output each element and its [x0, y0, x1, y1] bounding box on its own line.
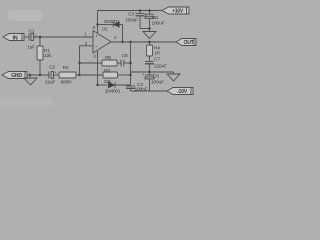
svg-text:100nF: 100nF	[135, 87, 148, 93]
svg-text:220nF: 220nF	[154, 64, 167, 70]
svg-text:IN: IN	[13, 35, 18, 41]
ground symbol right	[167, 72, 180, 81]
node C6 top	[148, 71, 150, 73]
node top rail C3	[139, 9, 141, 11]
wire pin5 to V+ node	[97, 11, 99, 34]
wire pin3 to negative rail	[97, 50, 99, 85]
svg-text:C7: C7	[154, 57, 160, 63]
svg-text:680R: 680R	[61, 79, 73, 85]
svg-text:1N4001: 1N4001	[105, 88, 121, 94]
svg-text:R3: R3	[104, 68, 110, 74]
wire C1 to opamp pin1	[34, 36, 94, 38]
wire D2 row	[98, 84, 108, 86]
svg-text:-10V: -10V	[177, 89, 188, 95]
connector IN	[3, 34, 24, 42]
svg-text:C5: C5	[152, 15, 158, 21]
svg-text:GND: GND	[11, 73, 22, 79]
ground symbol left	[24, 75, 37, 85]
capacitor C2 22uF	[45, 65, 57, 86]
node bus R3 row	[129, 74, 131, 76]
node gnd junction	[29, 74, 31, 76]
capacitor C3 100nF	[125, 11, 149, 29]
wire top rail	[98, 10, 163, 12]
svg-text:R2: R2	[63, 65, 69, 71]
wire negative rail	[131, 90, 168, 92]
diode D2 1N4001	[105, 82, 131, 94]
svg-text:+: +	[95, 35, 98, 40]
wire R5 row	[80, 62, 103, 64]
wire ground row right	[131, 71, 174, 73]
wire opamp pin2	[80, 45, 94, 47]
node C3 C5 ground junction	[148, 27, 150, 29]
capacitor C4 100nF	[126, 82, 148, 92]
resistor R4 1R	[147, 42, 161, 61]
connector -10V	[167, 88, 193, 96]
node output feedback bus	[129, 41, 131, 43]
svg-text:22uF: 22uF	[45, 80, 56, 86]
svg-text:C8: C8	[122, 53, 128, 59]
svg-text:100uF: 100uF	[151, 80, 164, 86]
op-amp U1	[93, 27, 111, 53]
node D1 output junction	[121, 41, 123, 43]
diode D1 1N4001	[104, 19, 123, 27]
svg-text:C6: C6	[153, 74, 159, 80]
wire pin2 vertical bus	[79, 46, 81, 75]
node top rail C5	[148, 9, 150, 11]
svg-text:C3: C3	[128, 12, 134, 18]
connector OUT	[176, 39, 196, 47]
wire D1 to output	[122, 25, 124, 43]
wire feedback bus vertical	[130, 42, 132, 86]
svg-text:1N4001: 1N4001	[104, 19, 120, 25]
node pin2 bus R5 row	[78, 62, 80, 64]
svg-text:U1: U1	[102, 27, 108, 33]
resistor R1 22k	[37, 37, 52, 75]
capacitor C1 1uF	[27, 29, 37, 51]
wire R3 row	[80, 74, 104, 76]
svg-text:R5: R5	[105, 55, 111, 61]
wire GND rail	[27, 74, 49, 76]
node pin5 diode junction	[96, 23, 98, 25]
node pin2 bus lower	[78, 74, 80, 76]
svg-text:–: –	[95, 45, 98, 50]
wire D1 anode row	[98, 24, 114, 26]
capacitor C7 220nF	[145, 57, 167, 73]
svg-text:1R: 1R	[154, 51, 161, 57]
connector GND	[2, 72, 27, 80]
ground symbol top	[143, 29, 156, 39]
capacitor C8	[121, 53, 131, 67]
connector +10V	[162, 7, 189, 15]
wire C2 to R2	[54, 74, 60, 76]
svg-text:+10V: +10V	[172, 9, 184, 15]
resistor R2 680R	[59, 65, 80, 85]
node R1 ground junction	[39, 74, 41, 76]
svg-text:100nF: 100nF	[125, 18, 138, 24]
node input junction	[39, 36, 41, 38]
resistor R5	[102, 55, 121, 66]
node output R4	[148, 41, 150, 43]
resistor R3 22k	[103, 68, 131, 85]
wire output	[111, 41, 176, 43]
svg-text:1uF: 1uF	[27, 45, 35, 51]
capacitor C5 100uF	[144, 11, 164, 29]
capacitor C6 100uF	[142, 72, 164, 91]
watermark top-left	[8, 10, 42, 21]
svg-text:OUT: OUT	[183, 40, 194, 46]
watermark bottom-left	[0, 98, 52, 106]
node bus R5 row	[129, 62, 131, 64]
svg-text:22k: 22k	[44, 53, 52, 59]
node pin3 rail	[96, 84, 98, 86]
svg-text:100uF: 100uF	[152, 20, 165, 26]
wire IN to C1	[24, 36, 29, 38]
